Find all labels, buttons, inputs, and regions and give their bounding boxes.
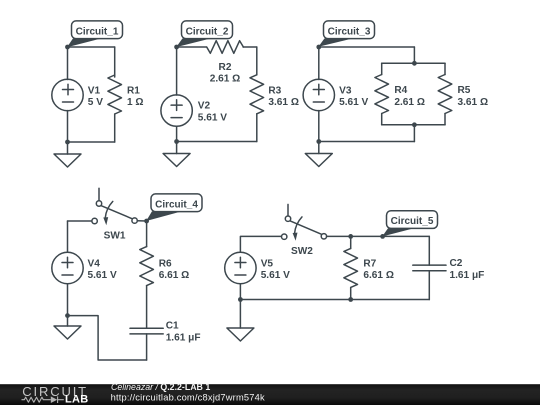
capacitor C2 [413,265,446,299]
wire V1 bottom lead [67,111,69,143]
switch SW1 [92,188,137,225]
voltage source V5 [225,252,256,283]
node R7 bottom junction [348,297,353,302]
label R2 value [210,62,241,85]
label V3 value [339,85,368,108]
footer bar [0,384,540,405]
svg-text:Circuit_1: Circuit_1 [76,26,119,37]
node circuit1 top junction [65,45,70,50]
svg-text:Celineazar / Q.2.2-LAB 1: Celineazar / Q.2.2-LAB 1 [111,382,210,392]
svg-text:5.61 V: 5.61 V [261,270,290,281]
label V1 value [88,85,103,108]
ground circuit2 [163,142,190,167]
voltage source V3 [303,79,334,110]
svg-text:http://circuitlab.com/c8xjd7wr: http://circuitlab.com/c8xjd7wrm574k [111,392,265,402]
svg-text:3.61 Ω: 3.61 Ω [268,97,299,108]
wire circuit3 bottom rail [382,124,445,126]
label R1 value [127,85,144,108]
ground circuit4 [54,316,81,339]
svg-text:R4: R4 [394,85,407,96]
resistor R7 [344,236,358,299]
wire circuit1 top [68,46,115,48]
label V5 value [261,259,290,282]
svg-text:V3: V3 [339,85,352,96]
label R7 value [363,258,394,281]
svg-text:5.61 V: 5.61 V [339,97,368,108]
node circuit3 rail top junction [412,61,417,66]
capacitor C1 [130,328,163,360]
svg-text:SW1: SW1 [104,230,126,241]
node circuit4 switch junction [144,219,149,224]
svg-text:5 V: 5 V [88,97,103,108]
svg-text:LAB: LAB [65,394,89,405]
wire V1 top lead [67,47,69,80]
wire SW1 to R6 [137,220,146,222]
node circuit5 ground junction [238,297,243,302]
wire SW2 to C2 corner [327,235,430,237]
resistor R1 [108,47,122,142]
wire V3 bottom lead [318,111,320,142]
svg-text:R7: R7 [363,258,376,269]
wire C2 top lead [428,236,430,265]
svg-text:V2: V2 [198,100,211,111]
node circuit2 top junction [174,45,179,50]
ground circuit3 [305,142,332,167]
net flag Circuit_2 [176,21,232,47]
wire V4 bottom lead [67,284,69,316]
wire circuit2 top left [177,46,207,48]
net flag Circuit_1 [67,21,123,47]
node circuit1 bottom junction [65,140,70,145]
svg-text:SW2: SW2 [291,246,313,257]
svg-text:1 Ω: 1 Ω [127,97,144,108]
wire circuit4 bottom return [68,316,147,360]
wire V5 top [240,236,281,252]
svg-text:V4: V4 [88,259,101,270]
wire V2 bottom lead [176,126,178,141]
wire SW1 left [68,220,93,222]
resistor R2 [207,41,244,54]
ground circuit1 [54,142,81,167]
node circuit3 top junction [316,45,321,50]
svg-text:R3: R3 [268,85,281,96]
resistor R6 [140,221,154,328]
node circuit3 rail bottom junction [412,122,417,127]
CircuitLab logo resistor-diode [22,396,64,403]
node Circuit_5 junction [380,234,385,239]
svg-text:2.61 Ω: 2.61 Ω [394,97,425,108]
wire V2 top lead [176,47,178,95]
svg-text:5.61 V: 5.61 V [198,112,227,123]
net flag Circuit_5 [382,211,437,237]
resistor R4 [375,63,389,125]
svg-text:Circuit_5: Circuit_5 [391,216,434,227]
svg-text:2.61 Ω: 2.61 Ω [210,74,241,85]
svg-text:R1: R1 [127,85,140,96]
svg-text:R6: R6 [159,259,172,270]
ground circuit5 [227,300,254,342]
node R7 top junction [348,234,353,239]
svg-text:V5: V5 [261,259,274,270]
label R6 value [159,259,190,281]
wire circuit3 top drop [413,47,415,63]
wire circuit1 bottom [68,141,115,143]
label R4 value [394,85,425,108]
wire circuit3 bottom [319,141,415,143]
label V4 value [88,259,117,282]
svg-text:C1: C1 [166,321,179,332]
voltage source V1 [52,79,83,110]
label C1 value [166,321,201,344]
label R3 value [268,85,299,108]
svg-text:5.61 V: 5.61 V [88,270,117,281]
svg-text:R5: R5 [458,85,471,96]
wire circuit3 top [319,46,415,48]
wire V3 top lead [318,47,320,80]
label C2 value [450,258,485,281]
wire V5 bottom lead [239,284,241,300]
svg-text:C2: C2 [450,258,463,269]
wire circuit5 bottom [240,299,429,301]
voltage source V4 [52,252,83,283]
switch SW2 [282,204,327,240]
node circuit3 bottom junction [316,139,321,144]
svg-text:1.61 μF: 1.61 μF [450,270,485,281]
net flag Circuit_3 [318,21,374,47]
svg-text:1.61 μF: 1.61 μF [166,333,201,344]
resistor R3 [250,47,264,142]
resistor R5 [438,63,452,125]
svg-text:6.61 Ω: 6.61 Ω [363,270,394,281]
wire circuit2 bottom [177,141,257,143]
svg-text:Circuit_3: Circuit_3 [328,26,371,37]
node circuit4 ground junction [65,313,70,318]
svg-text:R2: R2 [219,62,232,73]
label R5 value [458,85,489,108]
svg-text:Circuit_4: Circuit_4 [155,199,198,210]
wire V4 top lead [67,221,69,252]
svg-text:V1: V1 [88,85,101,96]
wire circuit3 top rail [382,62,445,64]
svg-text:3.61 Ω: 3.61 Ω [458,97,489,108]
net flag Circuit_4 [146,194,202,221]
wire circuit3 bottom drop [413,125,415,142]
voltage source V2 [161,95,192,126]
svg-text:Circuit_2: Circuit_2 [186,26,229,37]
svg-text:6.61 Ω: 6.61 Ω [159,270,190,281]
wire circuit2 top right [243,46,257,48]
node circuit2 bottom junction [174,139,179,144]
label V2 value [198,100,227,123]
